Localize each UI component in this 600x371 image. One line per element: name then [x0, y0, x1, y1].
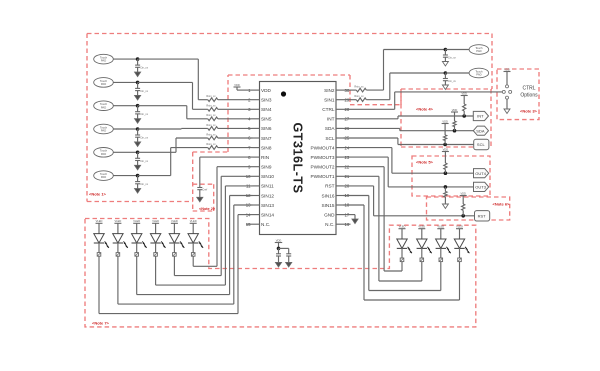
- svg-text:SCL: SCL: [325, 136, 335, 141]
- svg-text:SIN15: SIN15: [321, 203, 334, 208]
- svg-text:SIN6: SIN6: [261, 126, 272, 131]
- svg-text:Rsin_xx: Rsin_xx: [354, 94, 364, 98]
- svg-text:Rsin_xx: Rsin_xx: [206, 123, 216, 127]
- svg-text:VLED: VLED: [437, 225, 444, 229]
- svg-text:VLED: VLED: [115, 219, 122, 223]
- svg-text:Rsin_xx: Rsin_xx: [206, 142, 216, 146]
- svg-text:VDD: VDD: [234, 83, 240, 87]
- svg-text:Cin_xx: Cin_xx: [140, 66, 149, 70]
- svg-text:SIN14: SIN14: [261, 212, 274, 217]
- svg-text:VLED: VLED: [133, 219, 140, 223]
- svg-text:SIN9: SIN9: [261, 165, 272, 170]
- svg-text:SIN10: SIN10: [261, 174, 274, 179]
- svg-text:VDD: VDD: [460, 191, 466, 195]
- svg-text:N.C.: N.C.: [325, 222, 334, 227]
- svg-text:<Note 4>: <Note 4>: [416, 107, 434, 112]
- svg-text:VLED: VLED: [152, 219, 159, 223]
- svg-text:INT: INT: [327, 117, 335, 122]
- svg-text:Rsin_xx: Rsin_xx: [354, 85, 364, 89]
- svg-text:PAD: PAD: [101, 59, 106, 63]
- svg-text:Cin_xx: Cin_xx: [140, 89, 149, 93]
- svg-text:Rsin_xx: Rsin_xx: [206, 94, 216, 98]
- svg-text:VDD: VDD: [442, 119, 448, 123]
- svg-text:Rsin_xx: Rsin_xx: [206, 104, 216, 108]
- svg-text:VLED: VLED: [418, 225, 425, 229]
- svg-text:SIN12: SIN12: [261, 193, 274, 198]
- svg-text:SIN7: SIN7: [261, 136, 272, 141]
- svg-text:VDD: VDD: [504, 67, 510, 71]
- svg-text:SIN3: SIN3: [261, 98, 272, 103]
- svg-text:Cin_xx: Cin_xx: [140, 159, 149, 163]
- svg-text:SIN11: SIN11: [261, 184, 274, 189]
- svg-text:RST: RST: [325, 184, 335, 189]
- svg-text:VDD: VDD: [276, 238, 282, 242]
- svg-text:RIN: RIN: [261, 155, 269, 160]
- svg-text:PWMOUT2: PWMOUT2: [311, 165, 335, 170]
- svg-text:PWMOUT1: PWMOUT1: [311, 174, 335, 179]
- svg-text:<Note 5>: <Note 5>: [416, 160, 434, 165]
- svg-text:PAD: PAD: [101, 82, 106, 86]
- svg-text:Cin_xx: Cin_xx: [448, 56, 457, 60]
- svg-text:VLED: VLED: [399, 225, 406, 229]
- svg-text:SIN4: SIN4: [261, 107, 272, 112]
- svg-text:VDD: VDD: [452, 108, 458, 112]
- svg-text:VLED: VLED: [171, 219, 178, 223]
- svg-text:<Note 7>: <Note 7>: [92, 321, 110, 326]
- svg-text:VLED: VLED: [456, 225, 463, 229]
- svg-text:SIN13: SIN13: [261, 203, 274, 208]
- svg-text:OUT3: OUT3: [475, 185, 486, 190]
- svg-text:PAD: PAD: [476, 73, 481, 77]
- svg-text:SIN5: SIN5: [261, 117, 272, 122]
- svg-text:Cin_xx: Cin_xx: [140, 182, 149, 186]
- svg-text:PAD: PAD: [101, 105, 106, 109]
- svg-text:SDA: SDA: [325, 126, 336, 131]
- svg-text:SIN2: SIN2: [324, 88, 335, 93]
- svg-text:VDD: VDD: [443, 147, 449, 151]
- svg-text:VLED: VLED: [96, 219, 103, 223]
- svg-text:Cin_xx: Cin_xx: [140, 136, 149, 140]
- svg-text:GND: GND: [324, 212, 335, 217]
- svg-text:VLED: VLED: [190, 219, 197, 223]
- svg-text:SIN1: SIN1: [324, 98, 335, 103]
- svg-text:Options: Options: [520, 93, 538, 99]
- svg-text:SDA: SDA: [476, 128, 485, 133]
- svg-text:<Note 6>: <Note 6>: [493, 202, 511, 207]
- svg-text:PAD: PAD: [101, 152, 106, 156]
- svg-text:GT316L-TS: GT316L-TS: [291, 123, 305, 194]
- svg-text:SIN16: SIN16: [321, 193, 334, 198]
- svg-text:PAD: PAD: [101, 129, 106, 133]
- svg-text:<Note 1>: <Note 1>: [89, 192, 107, 197]
- svg-text:SIN8: SIN8: [261, 145, 272, 150]
- svg-text:VDD: VDD: [261, 88, 272, 93]
- svg-text:PAD: PAD: [101, 175, 106, 179]
- svg-text:Cin_xx: Cin_xx: [140, 112, 149, 116]
- svg-text:<Note 3>: <Note 3>: [520, 109, 538, 114]
- svg-text:Cin_xx: Cin_xx: [448, 79, 457, 83]
- svg-text:Rsin_xx: Rsin_xx: [206, 113, 216, 117]
- svg-text:PWMOUT3: PWMOUT3: [311, 155, 335, 160]
- svg-text:VDD: VDD: [461, 91, 467, 95]
- svg-text:PWMOUT4: PWMOUT4: [311, 145, 335, 150]
- svg-text:CTRL: CTRL: [522, 86, 535, 92]
- svg-text:Cref: Cref: [202, 188, 207, 192]
- svg-text:N.C.: N.C.: [261, 222, 270, 227]
- svg-text:SCL: SCL: [477, 142, 486, 147]
- svg-text:CTRL: CTRL: [322, 107, 335, 112]
- svg-text:PAD: PAD: [476, 49, 481, 53]
- svg-text:<Note 2>: <Note 2>: [199, 207, 216, 211]
- svg-text:INT: INT: [477, 114, 484, 119]
- svg-text:OUT4: OUT4: [475, 171, 486, 176]
- svg-text:RST: RST: [478, 213, 487, 218]
- svg-text:Rsin_xx: Rsin_xx: [206, 132, 216, 136]
